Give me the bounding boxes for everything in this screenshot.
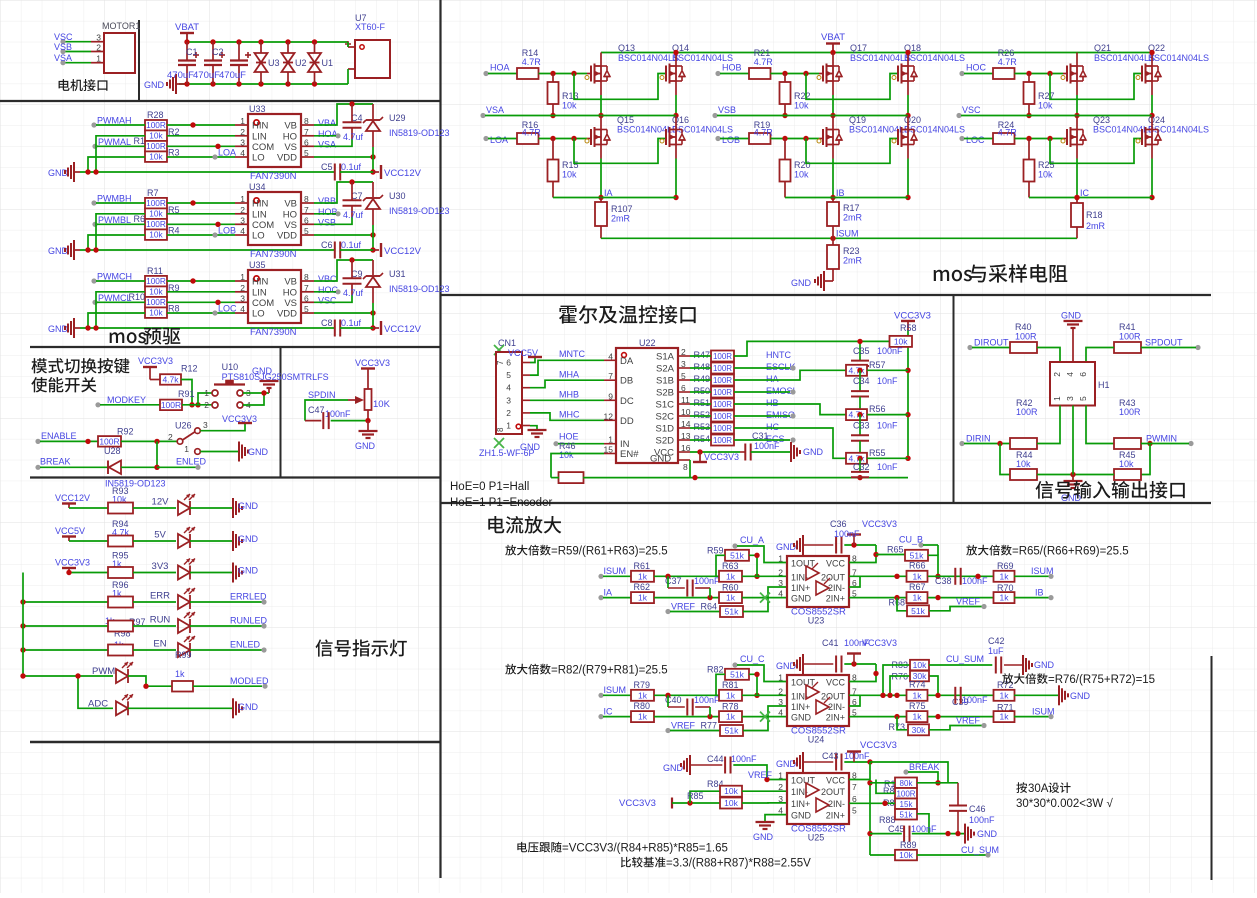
- svg-text:100nF: 100nF: [877, 346, 903, 356]
- svg-text:2mR: 2mR: [843, 213, 863, 223]
- TVS diode U3: [258, 39, 263, 44]
- svg-text:VREF: VREF: [956, 716, 981, 726]
- svg-text:R80: R80: [634, 701, 651, 711]
- svg-text:VS: VS: [284, 220, 297, 231]
- svg-text:U35: U35: [249, 260, 266, 270]
- TVS diode U1: [312, 39, 317, 44]
- svg-text:HOC: HOC: [318, 285, 339, 295]
- capacitor C3 470uF: [236, 39, 241, 44]
- svg-text:Q21: Q21: [1094, 43, 1111, 53]
- wire ho: [314, 291, 336, 293]
- svg-text:100R: 100R: [713, 424, 732, 433]
- capacitor C32 10nF: [859, 458, 861, 471]
- svg-text:GND: GND: [520, 442, 541, 452]
- wire gate bypass low: [1050, 139, 1142, 164]
- wire r45 gnd: [1073, 474, 1114, 476]
- svg-text:PWMCL: PWMCL: [98, 293, 132, 303]
- wire lin: [167, 291, 235, 293]
- svg-text:ISUM: ISUM: [604, 685, 627, 695]
- text formula left U23: [505, 545, 550, 556]
- wire r44 gnd: [1037, 474, 1073, 476]
- svg-text:U10: U10: [222, 362, 239, 372]
- node ENABLE: [35, 439, 40, 444]
- svg-text:ENABLE: ENABLE: [41, 431, 77, 441]
- svg-text:EN: EN: [153, 639, 166, 650]
- svg-text:1: 1: [778, 771, 783, 781]
- svg-text:R64: R64: [700, 602, 717, 612]
- LED EN: [178, 643, 190, 657]
- svg-text:100R: 100R: [713, 388, 732, 397]
- wire row4: [654, 597, 720, 599]
- svg-text:VDD: VDD: [277, 231, 297, 242]
- wire src: [69, 540, 108, 542]
- svg-text:HIN: HIN: [252, 277, 269, 288]
- svg-text:R41: R41: [1119, 322, 1136, 332]
- ground GND led: [232, 498, 234, 518]
- diode U28 IN5819-OD123: [107, 461, 109, 475]
- svg-text:10: 10: [681, 407, 691, 417]
- wire led out: [190, 601, 262, 603]
- no-connect X: [760, 712, 770, 722]
- svg-text:15k: 15k: [900, 800, 914, 809]
- svg-text:9: 9: [608, 391, 613, 401]
- svg-text:10k: 10k: [1038, 170, 1053, 180]
- svg-text:R74: R74: [909, 680, 926, 690]
- svg-text:HOC: HOC: [966, 63, 987, 73]
- ground GND adc: [232, 698, 234, 718]
- svg-text:IN5819-OD123: IN5819-OD123: [389, 284, 450, 294]
- svg-text:GND: GND: [791, 594, 812, 604]
- wire vs rail: [717, 115, 908, 117]
- svg-text:C45: C45: [888, 824, 905, 834]
- svg-text:R59: R59: [707, 546, 724, 556]
- wire stack row3: [849, 802, 895, 804]
- svg-text:VSC: VSC: [962, 105, 981, 115]
- svg-text:R61: R61: [634, 561, 651, 571]
- node LOB: [212, 232, 217, 237]
- svg-text:MOTOR1: MOTOR1: [102, 21, 140, 31]
- svg-text:3: 3: [778, 794, 783, 804]
- svg-text:6: 6: [1078, 372, 1088, 377]
- svg-text:10k: 10k: [1038, 101, 1053, 111]
- node HOB: [715, 71, 720, 76]
- svg-text:S2A: S2A: [656, 364, 675, 375]
- wire vcc to r85: [672, 802, 720, 804]
- node HOA: [483, 71, 488, 76]
- svg-text:6: 6: [304, 137, 309, 147]
- svg-text:HA: HA: [766, 374, 779, 384]
- svg-text:GND: GND: [1034, 660, 1055, 670]
- ground GND led: [232, 531, 234, 551]
- svg-text:VCC5V: VCC5V: [55, 526, 85, 536]
- svg-text:VSB: VSB: [718, 105, 736, 115]
- svg-text:10k: 10k: [1119, 459, 1134, 469]
- svg-text:1IN+: 1IN+: [791, 799, 810, 809]
- svg-text:4.7uf: 4.7uf: [343, 132, 364, 142]
- title mos预驱: [110, 332, 146, 343]
- wire r92 to switch: [121, 440, 177, 442]
- svg-text:RUN: RUN: [150, 615, 171, 626]
- junction: [85, 247, 90, 252]
- node MODLED: [262, 684, 267, 689]
- svg-text:VSA: VSA: [318, 139, 336, 149]
- svg-text:C46: C46: [969, 804, 986, 814]
- svg-text:1: 1: [184, 444, 189, 454]
- LED ADC: [116, 701, 128, 715]
- svg-text:10k: 10k: [149, 152, 163, 162]
- wire diode to node: [121, 466, 157, 468]
- svg-text:C1: C1: [186, 47, 198, 57]
- svg-text:BSC014N04LS: BSC014N04LS: [1094, 53, 1155, 63]
- svg-text:100nF: 100nF: [694, 576, 720, 586]
- svg-text:COM: COM: [252, 142, 274, 153]
- wire to led: [133, 540, 176, 542]
- svg-text:6: 6: [506, 358, 511, 368]
- svg-text:1k: 1k: [638, 690, 648, 700]
- svg-text:R23: R23: [843, 246, 860, 256]
- schottky diode U30 IN5819-OD123: [372, 182, 374, 197]
- svg-text:R47: R47: [693, 350, 710, 360]
- resistor R56 4.7k: [846, 409, 867, 420]
- wire cu to pin1: [737, 665, 787, 682]
- svg-text:10k: 10k: [724, 786, 738, 796]
- power flag VCC3V3 c43: [847, 750, 861, 752]
- svg-text:C41: C41: [822, 638, 839, 648]
- wire row4: [654, 716, 720, 718]
- power flag VCC3V3 top: [847, 652, 861, 654]
- svg-text:1OUT: 1OUT: [791, 678, 816, 688]
- svg-text:GND: GND: [803, 447, 824, 457]
- svg-text:2: 2: [240, 205, 245, 215]
- svg-text:R52: R52: [693, 410, 710, 420]
- svg-text:6: 6: [681, 383, 686, 393]
- svg-text:LOA: LOA: [490, 135, 508, 145]
- wire gate bypass high: [806, 74, 898, 100]
- node VSC: [956, 113, 961, 118]
- svg-text:100R: 100R: [713, 412, 732, 421]
- svg-text:3: 3: [96, 33, 101, 43]
- wire gate low: [1015, 138, 1064, 140]
- wire ho: [314, 135, 336, 137]
- node VSA: [480, 113, 485, 118]
- wire lo: [167, 312, 235, 314]
- text formula right U24: [1002, 673, 1047, 684]
- wire pwm row: [23, 675, 113, 677]
- text design note: [1016, 782, 1027, 793]
- wire pwm high: [96, 124, 145, 126]
- svg-text:100R: 100R: [1016, 407, 1038, 417]
- svg-text:VCC3V3: VCC3V3: [704, 452, 739, 462]
- svg-text:10k: 10k: [724, 798, 738, 808]
- svg-text:10K: 10K: [373, 399, 391, 410]
- svg-text:4: 4: [778, 806, 783, 816]
- wire gate high: [1015, 73, 1064, 75]
- svg-text:ISUM: ISUM: [1031, 566, 1054, 576]
- svg-text:100R: 100R: [713, 352, 732, 361]
- svg-text:VREF: VREF: [671, 602, 696, 612]
- wire row2 pin2: [742, 575, 787, 577]
- wire CU_SUM out: [929, 664, 992, 666]
- svg-text:Q15: Q15: [617, 115, 634, 125]
- TVS diode U2: [285, 39, 290, 44]
- wire row2: [654, 575, 720, 577]
- svg-text:R82: R82: [707, 665, 724, 675]
- wire HNTC: [734, 341, 890, 356]
- svg-text:4: 4: [608, 351, 613, 361]
- svg-text:C5: C5: [321, 162, 333, 172]
- wire vcc pin8: [849, 664, 876, 682]
- svg-text:10k: 10k: [149, 230, 163, 240]
- svg-text:VSA: VSA: [54, 53, 72, 63]
- svg-text:C31: C31: [752, 431, 769, 441]
- svg-text:Q20: Q20: [904, 115, 921, 125]
- svg-text:12: 12: [604, 411, 614, 421]
- svg-text:LOB: LOB: [218, 226, 236, 236]
- svg-text:LO: LO: [252, 153, 265, 164]
- svg-text:1uF: 1uF: [988, 646, 1004, 656]
- wire enable: [40, 440, 98, 442]
- wire hin: [167, 202, 235, 204]
- svg-text:R48: R48: [693, 362, 710, 372]
- svg-text:10k: 10k: [149, 209, 163, 219]
- node ISUM: [598, 574, 603, 579]
- svg-text:15: 15: [604, 445, 614, 455]
- svg-text:U29: U29: [389, 113, 406, 123]
- svg-text:1: 1: [778, 554, 783, 564]
- wire isense rail: [785, 197, 908, 199]
- svg-text:R53: R53: [693, 422, 710, 432]
- svg-text:IB: IB: [836, 188, 845, 198]
- wire gate low: [771, 138, 820, 140]
- svg-text:1k: 1k: [638, 571, 648, 581]
- svg-text:VREF: VREF: [671, 721, 696, 731]
- svg-text:5: 5: [506, 370, 511, 380]
- svg-text:8: 8: [304, 272, 309, 282]
- svg-text:100nF: 100nF: [962, 576, 988, 586]
- svg-text:10k: 10k: [899, 850, 913, 860]
- svg-text:80k: 80k: [900, 779, 914, 788]
- node PWMAL: [92, 144, 97, 149]
- svg-text:CU_C: CU_C: [740, 654, 765, 664]
- svg-text:R65: R65: [887, 545, 904, 555]
- node PWMAH: [91, 122, 96, 127]
- svg-text:VSB: VSB: [318, 217, 336, 227]
- wire led out: [190, 507, 232, 509]
- svg-text:HoE=1 P1=Encoder: HoE=1 P1=Encoder: [450, 497, 552, 509]
- svg-text:100R: 100R: [1119, 407, 1141, 417]
- svg-text:VBA: VBA: [318, 118, 336, 128]
- wire lin: [167, 213, 235, 215]
- svg-text:MHB: MHB: [559, 390, 579, 400]
- svg-text:2mR: 2mR: [843, 256, 863, 266]
- svg-text:R25: R25: [1038, 160, 1055, 170]
- svg-text:Q16: Q16: [672, 115, 689, 125]
- svg-text:2: 2: [1052, 372, 1062, 377]
- svg-text:S1C: S1C: [656, 400, 675, 411]
- svg-text:C43: C43: [822, 751, 839, 761]
- svg-text:GND: GND: [238, 702, 259, 712]
- wire gate low: [539, 138, 588, 140]
- svg-text:ISUM: ISUM: [1032, 707, 1055, 717]
- svg-text:LOB: LOB: [722, 135, 740, 145]
- wire gate high: [771, 73, 820, 75]
- svg-text:100R: 100R: [146, 120, 166, 130]
- svg-text:R11: R11: [147, 266, 163, 276]
- wire VBAT rail: [187, 41, 348, 43]
- svg-text:1k: 1k: [1000, 571, 1010, 581]
- svg-text:10k: 10k: [562, 101, 577, 111]
- svg-text:4: 4: [240, 148, 245, 158]
- svg-text:2IN+: 2IN+: [826, 594, 845, 604]
- svg-text:R51: R51: [693, 398, 710, 408]
- svg-text:VCC12V: VCC12V: [55, 493, 90, 503]
- svg-text:GND: GND: [791, 811, 812, 821]
- wire pwm low: [97, 145, 145, 147]
- svg-text:R10: R10: [128, 292, 145, 302]
- wire led out: [190, 540, 232, 542]
- ground GND r72: [1014, 694, 1058, 696]
- svg-text:13: 13: [681, 431, 691, 441]
- svg-text:PWMBH: PWMBH: [97, 194, 132, 204]
- svg-text:IB: IB: [1035, 588, 1044, 598]
- svg-text:U22: U22: [639, 338, 656, 348]
- potentiometer 10K: [365, 389, 372, 410]
- svg-text:C2: C2: [212, 47, 224, 57]
- wire r2 gnd: [96, 292, 145, 328]
- wire gnd rail hall: [583, 477, 908, 479]
- svg-text:S1B: S1B: [656, 376, 674, 387]
- node VREF left: [665, 728, 670, 733]
- wire vdd: [314, 234, 373, 236]
- svg-text:S2D: S2D: [656, 436, 675, 447]
- svg-text:1k: 1k: [913, 593, 923, 603]
- svg-text:100R: 100R: [146, 198, 166, 208]
- wire GND rail: [179, 83, 348, 85]
- text formula left U24: [505, 664, 550, 675]
- svg-text:51k: 51k: [730, 669, 744, 679]
- svg-text:U28: U28: [104, 446, 121, 456]
- wire u25 top loop: [870, 762, 948, 783]
- svg-text:HOA: HOA: [490, 63, 510, 73]
- svg-text:6: 6: [304, 293, 309, 303]
- svg-text:R28: R28: [147, 110, 164, 120]
- svg-text:R85: R85: [687, 791, 704, 801]
- svg-text:CU_B: CU_B: [899, 535, 923, 545]
- wire VBAT top rail: [601, 52, 1153, 54]
- wire key row1: [198, 393, 212, 405]
- svg-text:VSC: VSC: [54, 32, 73, 42]
- wire src: [69, 507, 108, 509]
- svg-text:2IN+: 2IN+: [826, 713, 845, 723]
- svg-text:CU_A: CU_A: [740, 535, 764, 545]
- capacitor C2 470uF: [210, 39, 215, 44]
- node CU_A: [732, 543, 737, 548]
- svg-text:7: 7: [304, 283, 309, 293]
- svg-text:R92: R92: [117, 427, 134, 437]
- svg-text:3: 3: [240, 293, 245, 303]
- wire key out: [243, 392, 269, 394]
- svg-text:1k: 1k: [726, 571, 736, 581]
- svg-text:VDD: VDD: [277, 309, 297, 320]
- svg-text:7: 7: [304, 205, 309, 215]
- resistor R57 4.7k: [846, 365, 867, 376]
- node IB out: [1014, 597, 1049, 599]
- svg-text:10k: 10k: [149, 131, 163, 141]
- svg-text:10nF: 10nF: [877, 376, 898, 386]
- wire led out: [190, 649, 262, 651]
- svg-text:R3: R3: [168, 148, 180, 158]
- svg-text:51k: 51k: [730, 550, 744, 560]
- power flag VCC12V: [373, 327, 379, 329]
- svg-text:C33: C33: [853, 421, 870, 431]
- text formula u25: [517, 842, 561, 853]
- svg-text:CU_SUM: CU_SUM: [961, 845, 999, 855]
- svg-text:EN#: EN#: [620, 449, 639, 460]
- svg-text:LOC: LOC: [218, 304, 237, 314]
- svg-text:3: 3: [1065, 396, 1075, 401]
- svg-text:GND: GND: [144, 80, 165, 90]
- wire ISUM rail: [601, 237, 1077, 239]
- wire r12 to key: [181, 380, 192, 405]
- wire stack row1: [870, 782, 895, 784]
- svg-text:LIN: LIN: [252, 131, 267, 142]
- svg-text:CN1: CN1: [498, 338, 516, 348]
- title 模式切换按键: [31, 358, 129, 374]
- ground GND u25 right: [964, 824, 966, 844]
- node LOC: [212, 310, 217, 315]
- svg-text:VCC3V3: VCC3V3: [138, 356, 173, 366]
- svg-text:Q23: Q23: [1093, 115, 1110, 125]
- svg-text:VCC12V: VCC12V: [384, 168, 422, 179]
- wire r2 gnd: [96, 214, 145, 250]
- svg-text:51k: 51k: [725, 607, 739, 617]
- wire sw1 gnd: [200, 451, 238, 453]
- svg-text:470uF: 470uF: [219, 70, 246, 81]
- wire vs rail: [961, 115, 1152, 117]
- node IC: [598, 714, 603, 719]
- svg-text:LOC: LOC: [966, 135, 985, 145]
- svg-text:3: 3: [240, 215, 245, 225]
- wire modled: [193, 685, 262, 687]
- svg-text:VREF: VREF: [748, 770, 773, 780]
- svg-text:4.7k: 4.7k: [848, 365, 865, 375]
- node BREAK: [903, 769, 908, 774]
- svg-text:U3: U3: [268, 58, 280, 68]
- svg-text:30*30*0.002<3W √: 30*30*0.002<3W √: [1016, 797, 1113, 810]
- svg-text:100R: 100R: [713, 400, 732, 409]
- svg-text:C8: C8: [321, 318, 333, 328]
- svg-text:1OUT: 1OUT: [791, 559, 816, 569]
- svg-text:=3.3/(R88+R87)*R88=2.55V: =3.3/(R88+R87)*R88=2.55V: [666, 858, 811, 870]
- svg-text:BREAK: BREAK: [40, 457, 71, 467]
- svg-text:0.1uf: 0.1uf: [341, 240, 362, 250]
- svg-text:XT60-F: XT60-F: [355, 22, 386, 32]
- svg-text:100nF: 100nF: [754, 441, 780, 451]
- wire pwmin: [1141, 443, 1189, 445]
- svg-text:10k: 10k: [562, 170, 577, 180]
- wire com: [167, 301, 235, 303]
- svg-text:R54: R54: [693, 434, 710, 444]
- ground GND c42: [1022, 655, 1024, 675]
- wire HB: [734, 404, 846, 415]
- svg-text:IA: IA: [604, 588, 613, 598]
- svg-text:2OUT: 2OUT: [821, 787, 846, 797]
- svg-text:7: 7: [496, 360, 505, 365]
- node LOA: [212, 154, 217, 159]
- svg-text:R67: R67: [909, 582, 926, 592]
- wire U7 pin2: [347, 69, 349, 84]
- svg-text:16: 16: [681, 443, 691, 453]
